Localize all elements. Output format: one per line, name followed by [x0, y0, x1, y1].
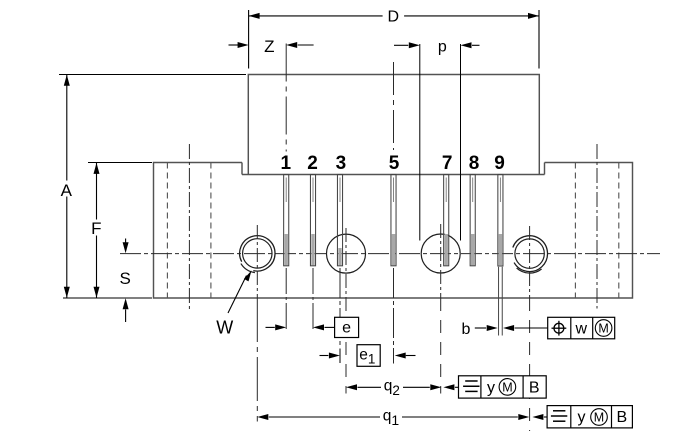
svg-text:M: M [598, 322, 608, 336]
flange right step [544, 163, 546, 175]
mounting hole 3 circle [421, 234, 460, 273]
pin 1 centerline below [285, 268, 287, 330]
dimension e1 label [359, 346, 375, 366]
frame A position symbol [552, 321, 567, 336]
dimension p extension line right [460, 44, 462, 241]
svg-text:S: S [120, 269, 131, 288]
horizontal hole centerline [120, 253, 660, 255]
pin 1 lead [284, 175, 289, 266]
pin 9 lead [498, 175, 503, 336]
svg-text:p: p [438, 39, 447, 56]
dimension S upper arrow [123, 239, 129, 254]
hole 4 vertical centerline [529, 226, 531, 431]
mounting hole 1 inner circle [243, 239, 272, 268]
svg-text:D: D [388, 8, 400, 25]
svg-text:B: B [616, 409, 627, 426]
frame A box [548, 317, 615, 339]
dimension Z label [264, 37, 274, 56]
svg-text:M: M [502, 380, 512, 394]
frame C box [547, 406, 632, 428]
svg-text:W: W [216, 317, 233, 337]
pin 5 number label [389, 153, 400, 174]
pin 2 number label [307, 153, 318, 174]
pin 9 number label [494, 153, 505, 174]
frame C letter y [578, 409, 586, 426]
svg-text:w: w [575, 320, 588, 337]
dimension Z inner arrow [286, 42, 313, 48]
frame B leader arrow [443, 384, 458, 390]
dimension p label [438, 39, 447, 56]
mounting hole 4 inner circle [515, 239, 544, 268]
dimension D extension line right [538, 10, 540, 69]
dimension e right arrow [313, 324, 335, 330]
dimension q1 line + arrows [257, 414, 529, 420]
left ear hidden line 2 [210, 163, 212, 299]
right ear hidden line 1 [574, 163, 576, 299]
left ear hidden line 1 [166, 163, 168, 299]
frame C leader arrow [532, 414, 547, 420]
dimension e label [342, 320, 351, 337]
mounting hole 1 outer ring (split) [240, 236, 275, 271]
svg-text:F: F [91, 219, 101, 238]
dimension q1 label [383, 407, 400, 428]
pin 3 extension tick [339, 349, 341, 364]
frame B symmetry symbol [463, 381, 479, 391]
pin 1 centerline above (into body) [285, 44, 287, 152]
dimension e1 box [357, 345, 380, 367]
svg-text:e: e [342, 320, 351, 337]
pin 8 lead [470, 175, 475, 266]
left ear centerline [188, 144, 190, 310]
mounting hole 4 outer ring (split) [513, 236, 548, 272]
dimension b right arrow [503, 325, 547, 331]
svg-text:2: 2 [307, 153, 318, 174]
W leader line [228, 271, 252, 314]
svg-text:b: b [462, 321, 471, 338]
dimension D label [388, 8, 400, 25]
mounting hole 4 ring end arc [517, 268, 542, 273]
dimension b left arrow [475, 325, 498, 331]
dimension e left arrow [266, 324, 287, 330]
svg-text:Z: Z [264, 37, 274, 56]
pin 8 number label [469, 153, 480, 174]
pin 2 centerline below [312, 268, 314, 330]
package body (top block) outline [248, 75, 539, 175]
svg-text:7: 7 [442, 153, 453, 174]
pin 7 number label [442, 153, 453, 174]
right ear centerline [596, 144, 598, 309]
flange left step [241, 163, 243, 175]
hole 1 vertical centerline [256, 225, 258, 422]
svg-text:y: y [578, 409, 586, 426]
dimension D line + arrows [249, 13, 539, 19]
svg-text:8: 8 [469, 153, 480, 174]
frame B box [459, 376, 547, 398]
pin 3 number label [336, 153, 347, 174]
pin 5 lead [391, 175, 396, 266]
flange (lower block) outline with step corners [154, 163, 633, 299]
right ear hidden line 2 [618, 163, 620, 299]
hole 2 vertical centerline [345, 228, 347, 394]
dimension A label [61, 181, 73, 200]
dimension p left arrow [394, 42, 420, 48]
dimension e1 left arrow [320, 353, 340, 359]
svg-text:y: y [487, 379, 495, 396]
mounting hole 2 circle [327, 234, 366, 273]
dimension F label [91, 219, 101, 238]
dimension p right arrow [461, 42, 480, 48]
pin 7 lead [444, 175, 449, 266]
flange top extension line [88, 162, 152, 164]
dimension e box [335, 317, 359, 337]
dimension S lower arrow [123, 298, 129, 322]
dimension D extension line left [248, 10, 250, 69]
dimension F line + arrows [94, 163, 100, 298]
svg-text:A: A [61, 181, 73, 200]
dimension q2 line + arrows [346, 384, 441, 390]
hole 3 vertical centerline [440, 224, 442, 394]
W label [216, 317, 233, 337]
dimension b label [462, 321, 471, 338]
pin 5 centerline below [393, 268, 395, 364]
svg-text:1: 1 [281, 153, 292, 174]
frame C letter B [616, 409, 627, 426]
pin 3 centerline below [339, 268, 341, 346]
dimension e1 right arrow [395, 353, 416, 359]
svg-text:q2: q2 [384, 378, 400, 398]
body bottom edge / flange seat line [242, 174, 545, 176]
flange bottom extension line [63, 297, 152, 299]
pin 1 number label [281, 153, 292, 174]
mounting hole 1 ring end arc [241, 264, 255, 273]
dimension S label [120, 269, 131, 288]
frame A M-circle [595, 320, 612, 337]
frame C symmetry symbol [551, 411, 567, 421]
frame B M-circle [499, 379, 516, 396]
frame A letter w [575, 320, 588, 337]
pin 3 lead [337, 175, 342, 266]
svg-text:q1: q1 [383, 407, 400, 428]
frame B letter B [529, 379, 540, 396]
body top extension line [59, 74, 246, 76]
frame B letter y [487, 379, 495, 396]
svg-text:M: M [594, 410, 604, 424]
svg-text:9: 9 [494, 153, 505, 174]
dimension q2 label [384, 378, 400, 398]
svg-text:3: 3 [336, 153, 347, 174]
svg-text:B: B [529, 379, 540, 396]
pin 5 centerline above (into body) [393, 62, 395, 150]
svg-text:5: 5 [389, 153, 400, 174]
pin 2 lead [310, 175, 315, 266]
dimension p extension line left [419, 44, 421, 241]
dimension A line + arrows [64, 75, 70, 298]
frame C M-circle [591, 409, 608, 426]
dimension Z outer arrow [229, 42, 249, 48]
